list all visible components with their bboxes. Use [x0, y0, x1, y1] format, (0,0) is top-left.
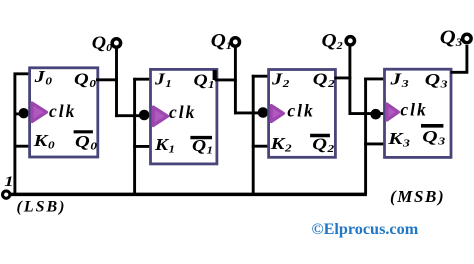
wire: input logic-1 left rail vertical	[13, 73, 16, 196]
flip-flop FF1 body	[151, 69, 217, 163]
node: Q0 output terminal	[112, 39, 120, 47]
wire: J0 input stub	[14, 72, 31, 75]
clock input triangle FF2	[271, 106, 283, 122]
wire: Q1 terminal vertical down to FF2 clk level	[234, 46, 237, 115]
wire: clk2 feed into FF2	[234, 111, 270, 114]
wire: Q1 output stub from FF1	[215, 78, 237, 81]
svg-text:clk: clk	[169, 102, 196, 122]
flip-flop FF3 body	[385, 69, 452, 157]
svg-text:clk: clk	[287, 101, 314, 121]
wire: logic-1 rail for FF2 J/K	[252, 75, 255, 194]
wire: clk0 input stub	[14, 112, 31, 115]
node: Q2 output terminal	[346, 37, 354, 45]
svg-text:1: 1	[4, 173, 13, 190]
wire: Q0 output stub from FF0	[96, 78, 118, 81]
junction dot: FF1 clk input	[139, 110, 150, 121]
pin label Q̄2 (inverted output)	[310, 135, 334, 155]
wire: bottom logic-1 rail	[7, 193, 367, 197]
wire: K2 input stub	[252, 145, 270, 148]
pin label Q̄0 (inverted output)	[74, 132, 97, 153]
wire: J3 input stub	[364, 77, 386, 80]
svg-text:©Elprocus.com: ©Elprocus.com	[312, 220, 419, 238]
wire: K1 input stub	[133, 145, 152, 148]
wire: Q1 output corner jog at FF1 top-right	[213, 70, 217, 80]
wire: Q0 terminal vertical down to FF1 clk level	[115, 46, 118, 117]
wire: logic-1 rail for FF1 J/K	[133, 78, 136, 194]
wire: J1 input stub	[133, 78, 152, 81]
pin label Q̄1 (inverted output)	[190, 136, 213, 156]
clock input triangle FF1	[153, 107, 167, 126]
flip-flop FF0 body	[30, 68, 98, 157]
wire: Q3 output to terminal (right, then up)	[451, 45, 467, 72]
wire: J2 input stub	[252, 75, 270, 78]
wire: Q2 terminal vertical down to FF3 clk level	[348, 45, 351, 115]
wire: logic-1 rail for FF3 J/K	[364, 78, 367, 195]
node: Q3 output terminal	[463, 34, 471, 42]
junction dot: FF3 clk input	[370, 109, 381, 120]
flip-flop FF2 body	[269, 70, 336, 158]
junction dot: FF0 clk input	[19, 108, 29, 118]
svg-text:clk: clk	[400, 100, 427, 120]
wire: K0 input stub	[14, 145, 31, 148]
wire: clk1 feed into FF1	[115, 114, 152, 117]
clock input triangle FF3	[387, 104, 399, 120]
svg-text:clk: clk	[49, 101, 76, 121]
wire: Q2 output stub from FF2	[335, 76, 352, 79]
node: Q1 output terminal	[231, 38, 239, 46]
wire: clk3 feed into FF3	[349, 112, 386, 115]
svg-text:(MSB): (MSB)	[390, 187, 445, 206]
svg-text:(LSB): (LSB)	[17, 199, 67, 216]
wire: K3 input stub	[364, 142, 386, 145]
pin label Q̄3 (inverted output)	[421, 126, 445, 148]
junction dot: FF2 clk input	[258, 107, 269, 118]
clock input triangle FF0	[32, 103, 47, 122]
node: input terminal (logic 1)	[2, 191, 9, 198]
